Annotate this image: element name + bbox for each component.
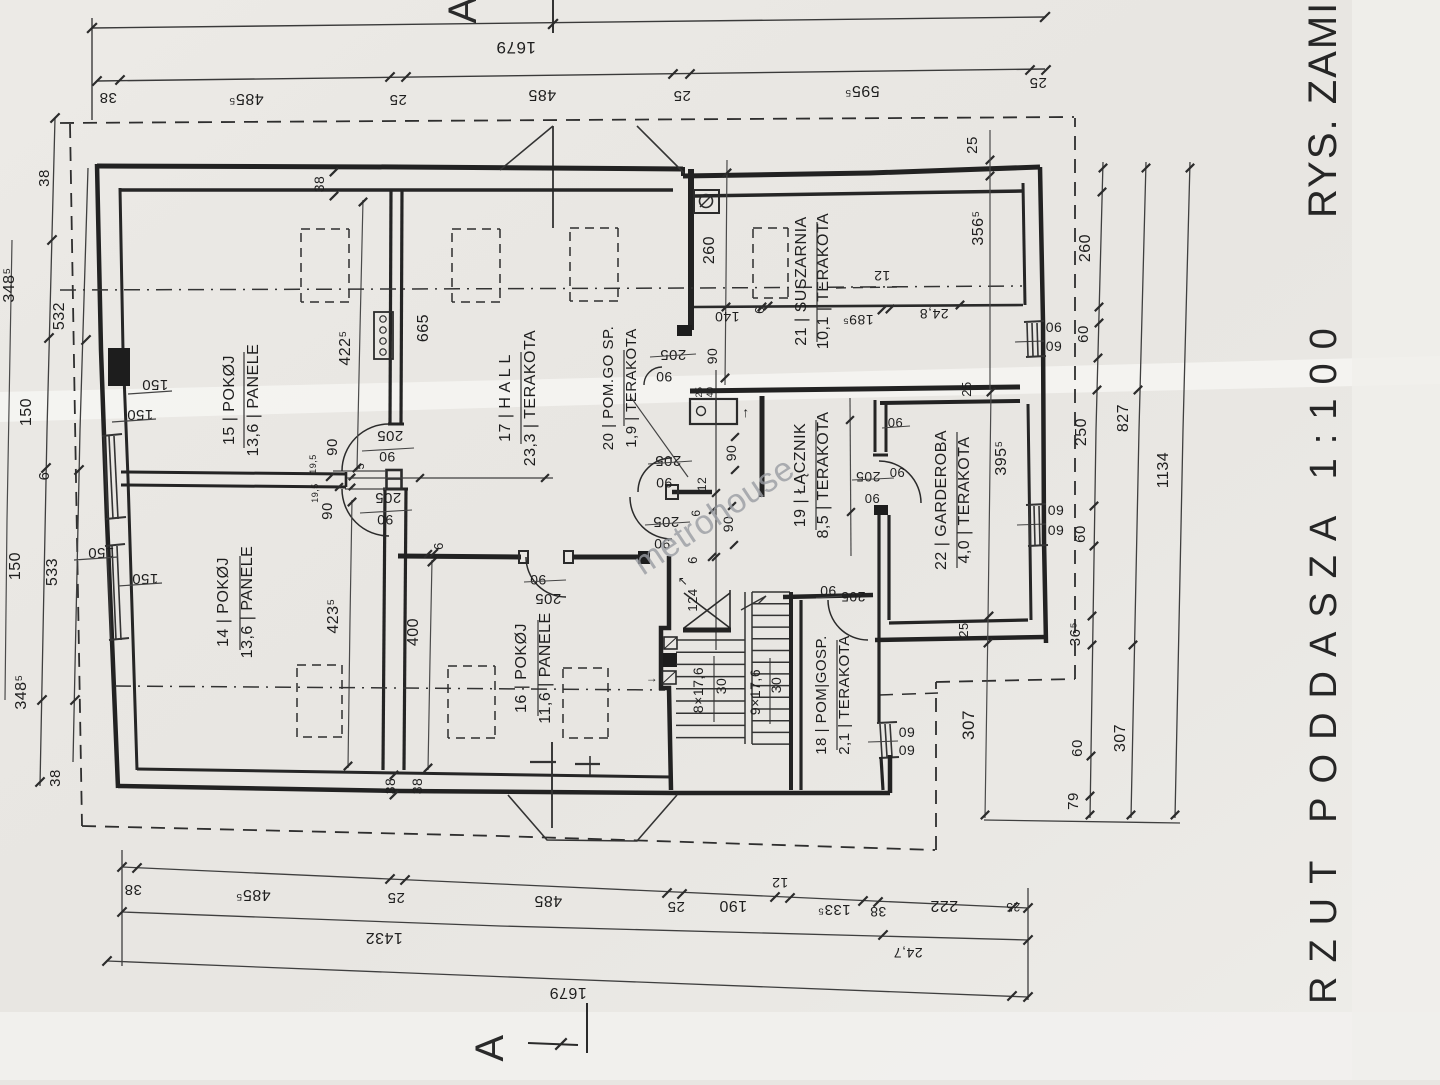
svg-text:13,6 | PANELE: 13,6 | PANELE xyxy=(245,344,262,457)
svg-text:25: 25 xyxy=(387,889,405,906)
knee dash-dot line upper xyxy=(60,286,1022,290)
inner wall left xyxy=(120,188,137,770)
wall rooms15-14 xyxy=(121,472,346,474)
svg-text:A: A xyxy=(468,1034,512,1061)
svg-text:1134: 1134 xyxy=(1155,452,1172,488)
roof outline dashed left xyxy=(70,124,82,826)
svg-text:485⁵: 485⁵ xyxy=(235,886,270,903)
flue symbols xyxy=(664,637,677,649)
door post hall-susz xyxy=(677,325,692,336)
svg-text:→: → xyxy=(646,671,659,685)
svg-text:14 | POKØJ: 14 | POKØJ xyxy=(215,557,232,647)
svg-text:38: 38 xyxy=(124,881,142,898)
inner wall right garderoba xyxy=(1028,404,1031,620)
door post white xyxy=(666,485,678,499)
svg-text:90: 90 xyxy=(656,475,673,491)
wall laczniki-garderoba upper xyxy=(874,400,877,452)
right chain V2 xyxy=(1090,162,1103,818)
svg-text:90: 90 xyxy=(319,502,336,520)
dim line laczniki xyxy=(850,398,851,556)
stair landing X xyxy=(684,593,730,628)
outer wall bottom corner curve xyxy=(96,164,98,166)
svg-text:38: 38 xyxy=(47,769,64,787)
outer wall top-right section xyxy=(683,167,1040,176)
svg-text:4,0 | TERAKOTA: 4,0 | TERAKOTA xyxy=(956,436,973,563)
left chain line 2 xyxy=(73,168,88,762)
hall axis line xyxy=(347,477,553,479)
light bottom margin xyxy=(0,1012,1440,1080)
bottom chain connector right xyxy=(1027,888,1029,1000)
left chain line far xyxy=(5,240,12,700)
bottom chain 2 xyxy=(122,912,1028,940)
axis cross bottom xyxy=(530,761,556,763)
svg-text:18 | POM|GOSP.: 18 | POM|GOSP. xyxy=(813,635,830,755)
svg-text:24,8: 24,8 xyxy=(919,306,948,322)
door post b2 xyxy=(564,551,573,563)
svg-text:1679: 1679 xyxy=(496,38,536,57)
svg-text:21 | SUSZARNIA: 21 | SUSZARNIA xyxy=(793,216,810,345)
left chain line 1 xyxy=(40,118,55,786)
vent box with circle xyxy=(694,190,719,213)
svg-text:307: 307 xyxy=(959,710,978,740)
inner wall bottom xyxy=(137,769,672,777)
svg-text:25: 25 xyxy=(389,91,407,108)
svg-text:140: 140 xyxy=(715,309,740,325)
svg-text:6: 6 xyxy=(36,472,53,481)
svg-text:90: 90 xyxy=(889,465,904,480)
svg-text:827: 827 xyxy=(1115,404,1132,432)
svg-text:485: 485 xyxy=(528,86,556,103)
stair stringer xyxy=(744,592,746,744)
wall hall-suszarnia xyxy=(688,169,694,330)
right chain V4 xyxy=(1175,162,1190,818)
bottom chain 3 xyxy=(107,961,1028,997)
svg-text:25: 25 xyxy=(1029,74,1047,91)
door jamb lines 15-14 xyxy=(333,470,386,472)
window garderoba east xyxy=(880,724,882,757)
svg-text:17 | H A L L: 17 | H A L L xyxy=(497,354,514,442)
svg-text:260: 260 xyxy=(1077,234,1094,262)
roof window room16 dashed a xyxy=(448,665,495,667)
svg-text:260: 260 xyxy=(701,236,718,264)
door post 15-14 white xyxy=(387,470,402,489)
roof window hall dashed a xyxy=(452,228,500,230)
outer wall right xyxy=(1040,167,1046,643)
hall-room16 wall xyxy=(398,556,521,557)
window W1 left wall xyxy=(104,436,108,519)
svg-text:25: 25 xyxy=(964,136,981,154)
light right margin xyxy=(1352,0,1440,1080)
svg-text:250: 250 xyxy=(1073,418,1090,446)
bottom chain 1 xyxy=(122,867,1028,908)
svg-text:1,9 | TERAKOTA: 1,9 | TERAKOTA xyxy=(623,328,640,448)
window W2 left wall xyxy=(107,546,111,640)
svg-text:124: 124 xyxy=(685,588,700,611)
svg-text:38: 38 xyxy=(382,778,398,795)
roof outline dashed bottom xyxy=(82,826,935,850)
roof window room16 dashed b xyxy=(563,667,608,669)
window gard east xyxy=(1029,506,1030,545)
garderoba outer bottom wall xyxy=(875,637,1046,640)
svg-text:533: 533 xyxy=(44,558,61,586)
roof window hall dashed b xyxy=(570,227,618,229)
svg-text:25: 25 xyxy=(667,898,685,915)
radiator room15 xyxy=(374,312,393,359)
svg-text:90: 90 xyxy=(704,348,720,365)
svg-text:25: 25 xyxy=(959,381,974,396)
svg-text:25: 25 xyxy=(956,622,971,637)
svg-text:485⁵: 485⁵ xyxy=(228,90,263,107)
svg-text:90: 90 xyxy=(723,445,739,462)
svg-text:6: 6 xyxy=(431,542,446,550)
svg-text:09: 09 xyxy=(899,742,916,758)
svg-text:36⁵: 36⁵ xyxy=(1067,622,1084,646)
svg-text:8×17,6: 8×17,6 xyxy=(690,667,706,713)
top dim line 1679 xyxy=(92,17,1045,28)
svg-text:A: A xyxy=(441,0,485,24)
svg-text:205: 205 xyxy=(841,589,866,605)
svg-text:RYS. ZAMIE: RYS. ZAMIE xyxy=(1301,0,1345,218)
svg-text:150: 150 xyxy=(18,398,35,426)
bottom chain connector left xyxy=(121,850,123,966)
stair treads flight B xyxy=(752,591,790,593)
svg-text:06: 06 xyxy=(1046,319,1063,335)
svg-text:423⁵: 423⁵ xyxy=(325,598,342,633)
door post b1 xyxy=(519,551,528,563)
svg-text:12: 12 xyxy=(695,477,709,491)
svg-text:25: 25 xyxy=(1006,900,1020,914)
svg-text:205: 205 xyxy=(377,427,404,444)
roof window suszarnia dashed xyxy=(753,227,788,229)
svg-text:348⁵: 348⁵ xyxy=(1,267,18,302)
svg-text:1432: 1432 xyxy=(365,929,403,946)
garderoba inner bottom wall xyxy=(889,620,1028,623)
dormer top trapezoid xyxy=(500,126,553,170)
svg-text:38: 38 xyxy=(409,778,425,795)
svg-text:422⁵: 422⁵ xyxy=(337,330,354,365)
svg-text:133⁵: 133⁵ xyxy=(817,901,850,918)
section line bottom xyxy=(551,742,553,828)
wall pier black left xyxy=(108,348,130,386)
inner wall line top right xyxy=(694,191,1022,196)
svg-text:38: 38 xyxy=(311,176,327,193)
svg-text:30: 30 xyxy=(713,678,729,695)
wall suszarnia bottom xyxy=(690,387,1020,391)
hall wall continue xyxy=(573,555,640,560)
knee dash-dot line lower xyxy=(115,686,665,690)
svg-text:205: 205 xyxy=(375,489,402,506)
wall door section y492 xyxy=(672,490,712,495)
svg-text:190: 190 xyxy=(719,897,747,914)
svg-text:09: 09 xyxy=(1046,338,1063,354)
window susz east xyxy=(1027,323,1028,356)
svg-text:79: 79 xyxy=(1065,792,1082,810)
stair treads flight A xyxy=(676,639,745,641)
roof window room14 dashed xyxy=(297,664,342,666)
svg-text:1679: 1679 xyxy=(549,984,587,1001)
right chain V3 xyxy=(1131,162,1146,818)
svg-text:485: 485 xyxy=(534,892,562,909)
stair-laczniki top wall xyxy=(783,595,873,597)
stair arrow xyxy=(741,596,766,610)
svg-text:150: 150 xyxy=(142,376,169,393)
svg-text:90: 90 xyxy=(530,572,547,588)
room 20 leader line xyxy=(630,396,688,477)
svg-text:90: 90 xyxy=(656,369,673,385)
svg-text:RZUT PODDASZA 1:100: RZUT PODDASZA 1:100 xyxy=(1303,314,1345,1004)
svg-text:595⁵: 595⁵ xyxy=(844,82,879,99)
inner wall line top xyxy=(121,188,673,192)
svg-text:189⁵: 189⁵ xyxy=(842,312,873,328)
svg-text:↑: ↑ xyxy=(742,404,750,420)
svg-text:90: 90 xyxy=(377,512,394,528)
svg-text:222: 222 xyxy=(930,897,958,914)
roof outline dashed right lower xyxy=(935,682,937,850)
building bottom right corner wall xyxy=(677,791,890,796)
svg-text:60: 60 xyxy=(1069,739,1086,757)
svg-text:307: 307 xyxy=(1112,724,1129,752)
svg-text:90: 90 xyxy=(379,449,396,465)
svg-text:15 | POKØJ: 15 | POKØJ xyxy=(221,355,238,445)
inner wall right suszarnia xyxy=(1023,183,1025,305)
suszarnia knee line xyxy=(694,305,1023,307)
svg-text:38: 38 xyxy=(99,89,117,106)
dim line 260 vertical xyxy=(725,160,727,385)
svg-text:38: 38 xyxy=(870,904,887,920)
wall garderoba top xyxy=(880,401,1020,403)
svg-text:09: 09 xyxy=(899,724,916,740)
svg-text:19,5: 19,5 xyxy=(308,454,318,474)
svg-text:665: 665 xyxy=(415,314,432,342)
svg-text:16 | POKØJ: 16 | POKØJ xyxy=(513,623,530,713)
svg-text:12: 12 xyxy=(772,875,789,891)
stair shaft left wall xyxy=(661,556,671,790)
svg-text:20 | POM.GO SP.: 20 | POM.GO SP. xyxy=(600,326,617,451)
svg-text:19,5: 19,5 xyxy=(310,483,320,503)
svg-text:25: 25 xyxy=(673,87,691,104)
dormer bottom trapezoid xyxy=(508,795,677,841)
svg-text:23,3 | TERAKOTA: 23,3 | TERAKOTA xyxy=(522,330,539,466)
svg-text:2,1 | TERAKOTA: 2,1 | TERAKOTA xyxy=(836,635,853,755)
svg-text:12: 12 xyxy=(874,268,891,284)
svg-text:24,7: 24,7 xyxy=(893,945,922,961)
svg-text:22 | GARDEROBA: 22 | GARDEROBA xyxy=(933,430,950,570)
door post garderoba black xyxy=(874,505,888,515)
outer wall left xyxy=(97,164,118,788)
wall small room right xyxy=(760,396,765,497)
svg-text:9×17,6: 9×17,6 xyxy=(747,669,763,715)
wall garderoba left lower xyxy=(877,515,880,722)
svg-text:90: 90 xyxy=(324,438,341,456)
svg-text:8,5 | TERAKOTA: 8,5 | TERAKOTA xyxy=(815,411,832,538)
wall below window to corner xyxy=(881,757,883,790)
door arc a xyxy=(638,458,672,492)
svg-text:356⁵: 356⁵ xyxy=(970,210,987,245)
right chains terminal line xyxy=(984,820,1180,823)
svg-text:205: 205 xyxy=(535,590,562,607)
outer wall top-left section xyxy=(97,166,683,169)
wall rooms15-hall xyxy=(390,190,391,424)
small room fixture xyxy=(690,399,737,424)
svg-text:90: 90 xyxy=(864,491,879,506)
svg-text:400: 400 xyxy=(405,618,422,646)
svg-text:38: 38 xyxy=(36,169,53,187)
top dim line 2 xyxy=(97,69,1045,81)
white crease band across page xyxy=(0,356,1440,422)
svg-text:395⁵: 395⁵ xyxy=(993,440,1010,475)
stair top wall stub xyxy=(683,628,731,633)
svg-text:09: 09 xyxy=(1048,502,1065,518)
svg-text:09: 09 xyxy=(1048,522,1065,538)
svg-text:205: 205 xyxy=(856,469,881,485)
right chain garderoba xyxy=(985,390,991,818)
stair right wall xyxy=(789,592,793,790)
svg-text:↖: ↖ xyxy=(678,574,689,588)
svg-text:532: 532 xyxy=(51,302,68,330)
outer wall top step xyxy=(681,167,685,176)
svg-text:13,6 | PANELE: 13,6 | PANELE xyxy=(239,546,256,659)
roof window room15 dashed xyxy=(301,228,349,230)
roof outline dashed right xyxy=(1074,118,1076,679)
door arc b xyxy=(630,497,672,539)
svg-text:348⁵: 348⁵ xyxy=(13,674,30,709)
svg-text:150: 150 xyxy=(7,552,24,580)
svg-text:60: 60 xyxy=(1075,325,1092,343)
svg-text:6: 6 xyxy=(685,556,700,564)
door arc garderoba xyxy=(879,461,921,503)
section line through stairs xyxy=(715,370,717,650)
svg-text:11,6 | PANELE: 11,6 | PANELE xyxy=(537,612,554,723)
door arc hall-16 xyxy=(526,557,566,597)
wall rooms14-16 xyxy=(383,488,385,770)
roof outline dashed top xyxy=(60,117,1074,123)
outer wall bottom xyxy=(118,786,677,793)
door arc 14 down xyxy=(342,489,389,536)
svg-text:60: 60 xyxy=(1072,525,1089,543)
door arc laczniki-18 xyxy=(828,600,868,640)
door arc 15 up xyxy=(342,424,389,471)
door post black hall-stairs xyxy=(638,551,650,564)
dim ticks mid corridor xyxy=(712,489,720,497)
